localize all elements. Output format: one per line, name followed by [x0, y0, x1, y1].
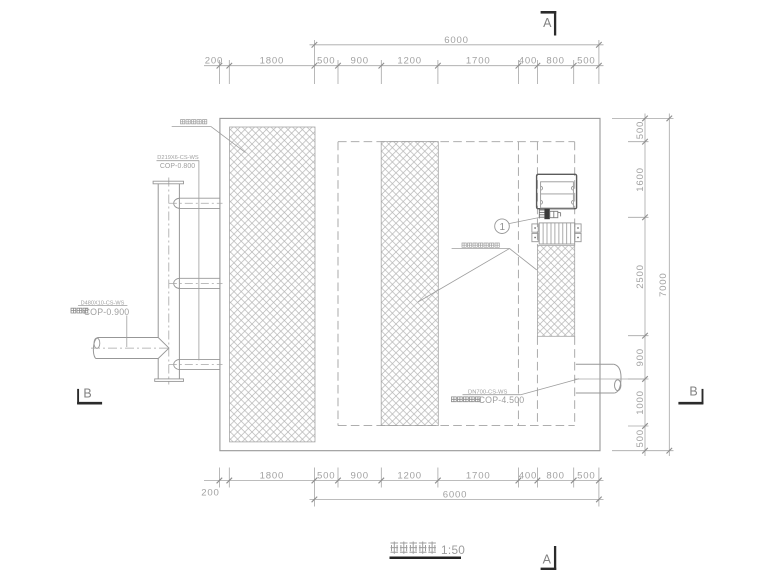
grating side clips — [532, 224, 538, 232]
standpipe bottom flange — [155, 379, 184, 382]
bottom extension lines and ticks — [218, 468, 220, 488]
svg-text:900: 900 — [635, 348, 646, 366]
bottom dimension line — [204, 480, 604, 482]
top overall 6000 line — [310, 44, 604, 46]
middle hatched slab band — [381, 142, 438, 426]
DN700 outlet pipe — [576, 363, 614, 365]
label D480X10-CS-WS — [71, 301, 129, 347]
svg-text:800: 800 — [546, 56, 564, 67]
equipment box (gate/hoist) — [537, 174, 577, 208]
left hatched platform slab — [230, 127, 316, 442]
standpipe D480 — [157, 184, 159, 338]
inlet pipe D480 horizontal — [98, 337, 159, 339]
svg-text:COP-0.800: COP-0.800 — [160, 163, 195, 170]
svg-text:6000: 6000 — [444, 35, 469, 46]
svg-text:COP-0.900: COP-0.900 — [84, 307, 130, 317]
wall stub pipe 2 (D219) — [179, 277, 220, 279]
right overall 7000 line — [668, 114, 670, 457]
svg-text:1200: 1200 — [397, 56, 422, 67]
svg-text:B: B — [83, 387, 91, 401]
svg-text:500: 500 — [635, 429, 646, 447]
svg-text:COP-4.500: COP-4.500 — [479, 395, 525, 405]
svg-text:500: 500 — [577, 471, 595, 482]
svg-text:1700: 1700 — [466, 471, 491, 482]
pump / actuator glyph — [539, 209, 544, 211]
svg-text:7000: 7000 — [658, 272, 669, 297]
DN700 centerline — [574, 378, 645, 380]
walkway grating — [539, 223, 575, 244]
svg-text:200: 200 — [201, 488, 219, 499]
section marker B left — [77, 387, 102, 404]
dashed equipment strip edges — [536, 142, 538, 246]
section marker A bottom — [541, 546, 557, 570]
svg-text:D219X6-CS-WS: D219X6-CS-WS — [157, 155, 199, 161]
svg-text:2500: 2500 — [635, 264, 646, 289]
svg-text:900: 900 — [350, 471, 368, 482]
section marker B right — [678, 385, 703, 404]
svg-text:500: 500 — [317, 471, 335, 482]
dashed line x=6300 — [517, 142, 519, 426]
title underline — [390, 557, 462, 560]
svg-text:1: 1 — [500, 222, 506, 233]
label DN700-CS-WS — [452, 379, 580, 405]
svg-text:500: 500 — [635, 121, 646, 139]
svg-text:1800: 1800 — [260, 56, 285, 67]
miter joint — [158, 338, 169, 349]
svg-text:800: 800 — [546, 471, 564, 482]
svg-text:A: A — [543, 16, 552, 30]
svg-text:200: 200 — [205, 56, 223, 67]
svg-text:1600: 1600 — [635, 167, 646, 192]
top dimension line — [204, 65, 604, 67]
bottom overall 6000 line — [310, 498, 604, 500]
inlet pipe centerline — [91, 347, 169, 349]
svg-text:1000: 1000 — [635, 390, 646, 415]
wall stub pipe 3 (D219) — [179, 358, 220, 360]
svg-text:1200: 1200 — [397, 471, 422, 482]
label: slab hole (middle) — [418, 243, 537, 302]
dashed opening outline (hidden edge) — [338, 141, 575, 143]
section marker A top — [541, 11, 557, 36]
svg-text:1700: 1700 — [466, 56, 491, 67]
svg-text:1800: 1800 — [260, 471, 285, 482]
label: slab hole (top-left) — [172, 120, 246, 153]
right dimension line — [644, 114, 646, 457]
right hatched slab band — [537, 246, 574, 337]
callout circle 1 — [495, 219, 510, 234]
equipment inner frame — [541, 182, 574, 208]
svg-text:A: A — [543, 552, 552, 566]
svg-text:400: 400 — [519, 56, 537, 67]
right extension lines and ticks — [612, 117, 674, 119]
title: pool top plan 1:50 — [391, 542, 436, 554]
standpipe centerline — [168, 178, 170, 385]
wall stub pipe 1 (D219) — [179, 197, 220, 199]
svg-text:B: B — [689, 385, 697, 399]
standpipe top flange — [153, 181, 183, 184]
svg-text:500: 500 — [577, 56, 595, 67]
top extension lines and ticks — [218, 60, 220, 84]
svg-text:500: 500 — [317, 56, 335, 67]
label D219X6-CS-WS — [157, 155, 200, 361]
svg-text:6000: 6000 — [443, 490, 468, 501]
svg-text:1:50: 1:50 — [441, 543, 465, 557]
pool outer wall — [220, 118, 600, 450]
svg-text:400: 400 — [519, 471, 537, 482]
svg-text:900: 900 — [350, 56, 368, 67]
